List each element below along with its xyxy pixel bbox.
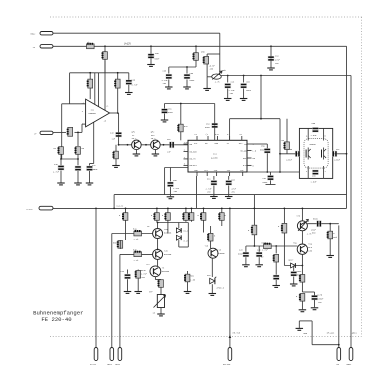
svg-text:40.7: 40.7: [132, 137, 138, 140]
svg-text:50nF: 50nF: [260, 148, 266, 151]
svg-text:NFC1: NFC1: [107, 363, 113, 366]
svg-text:1.0uF: 1.0uF: [311, 134, 318, 137]
svg-text:68nF: 68nF: [190, 79, 196, 82]
svg-text:RG-BST: RG-BST: [190, 164, 198, 167]
svg-text:NFC2: NFC2: [115, 363, 121, 366]
svg-text:680nF: 680nF: [92, 168, 99, 171]
svg-text:BF965: BF965: [310, 143, 317, 146]
svg-text:1.0uF: 1.0uF: [311, 181, 318, 184]
svg-text:AGC1: AGC1: [352, 332, 358, 335]
svg-text:RG42: RG42: [31, 33, 37, 36]
svg-text:BC546B: BC546B: [164, 232, 172, 235]
svg-text:EH-TUM: EH-TUM: [223, 363, 231, 366]
svg-text:QC17: QC17: [289, 259, 295, 262]
svg-text:4.7uF: 4.7uF: [53, 171, 60, 174]
svg-text:NF-Aus: NF-Aus: [327, 332, 335, 335]
svg-text:EH-TUM: EH-TUM: [233, 332, 241, 335]
svg-text:U-12V: U-12V: [27, 208, 34, 211]
svg-text:220uF: 220uF: [334, 159, 341, 162]
svg-text:220uF: 220uF: [286, 159, 293, 162]
svg-text:4.7uF: 4.7uF: [132, 84, 139, 87]
svg-text:J: J: [253, 143, 254, 146]
svg-text:R51k: R51k: [313, 218, 319, 221]
svg-text:RG-TH: RG-TH: [190, 158, 197, 161]
svg-text:40.7: 40.7: [151, 137, 157, 140]
svg-text:C46 4.7uF: C46 4.7uF: [257, 249, 269, 252]
svg-text:BC546B: BC546B: [162, 270, 170, 273]
svg-text:2.2k: 2.2k: [134, 259, 140, 262]
svg-text:FE 220-40: FE 220-40: [41, 316, 72, 323]
svg-text:AGC1: AGC1: [347, 363, 353, 366]
svg-text:RG-BDM: RG-BDM: [190, 150, 198, 153]
svg-text:ZPD6.8: ZPD6.8: [217, 287, 225, 290]
svg-text:MD-AB: MD-AB: [240, 149, 247, 152]
svg-text:U+12V: U+12V: [117, 205, 124, 208]
svg-text:U+12V: U+12V: [90, 363, 97, 366]
svg-text:1.5k: 1.5k: [190, 279, 196, 282]
svg-text:68nF: 68nF: [246, 89, 252, 92]
svg-text:4.7k: 4.7k: [215, 81, 221, 84]
svg-text:68nF: 68nF: [168, 111, 174, 114]
svg-text:50nF: 50nF: [155, 58, 161, 61]
svg-text:BC546B: BC546B: [217, 252, 225, 255]
svg-text:68nF: 68nF: [205, 126, 211, 129]
svg-text:BC546B: BC546B: [164, 253, 172, 256]
svg-text:A4250: A4250: [211, 157, 218, 160]
svg-text:MA0005: MA0005: [89, 112, 97, 115]
svg-text:68nF: 68nF: [263, 181, 269, 184]
svg-text:68uF: 68uF: [238, 253, 244, 256]
svg-text:U+12V: U+12V: [124, 42, 132, 45]
svg-text:2.2k: 2.2k: [134, 238, 140, 241]
svg-text:CC/B: CC/B: [317, 294, 323, 297]
svg-text:IC2: IC2: [213, 153, 218, 156]
